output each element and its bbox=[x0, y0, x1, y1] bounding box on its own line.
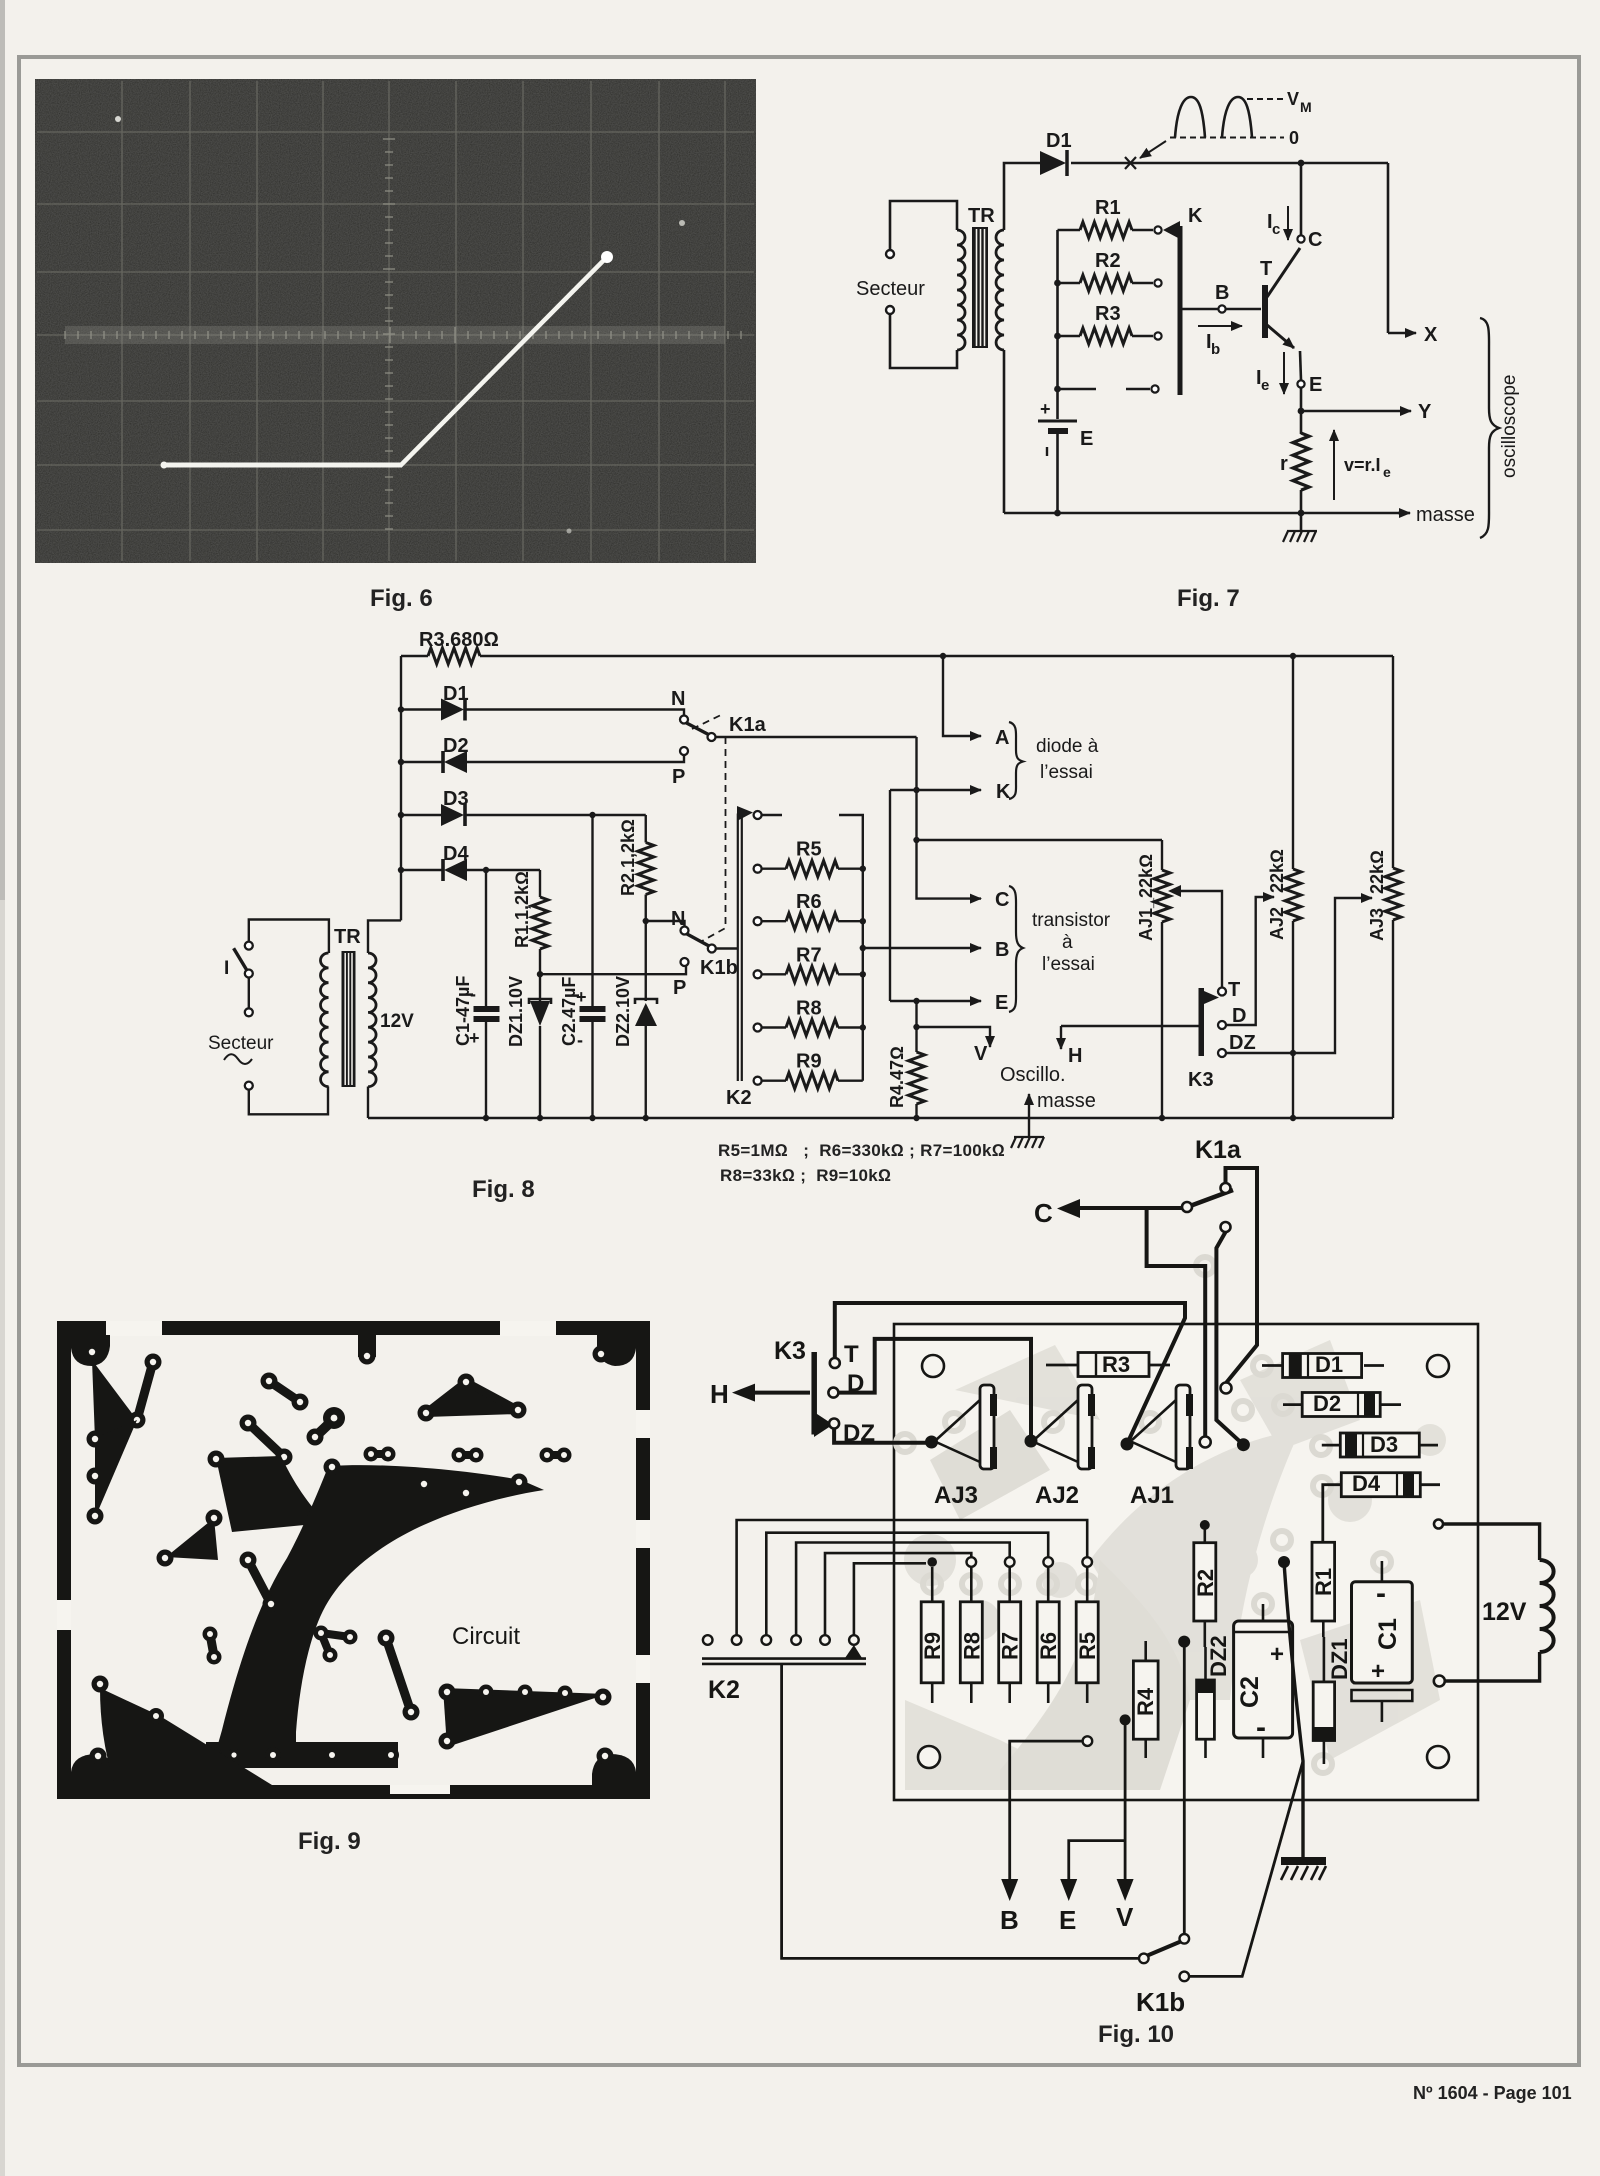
twin pads row bbox=[371, 1450, 388, 1458]
svg-text:R1: R1 bbox=[1095, 197, 1121, 219]
arrow B bbox=[1083, 1736, 1093, 1746]
svg-text:N: N bbox=[671, 688, 685, 710]
ground symbol bbox=[1281, 1857, 1326, 1865]
wire emitter to E bbox=[1300, 351, 1301, 380]
svg-text:AJ1_22kΩ: AJ1_22kΩ bbox=[1136, 854, 1156, 941]
wire D to AJ2 wiper bbox=[1226, 897, 1274, 1025]
arrow V bbox=[1124, 1720, 1127, 1884]
svg-text:R8: R8 bbox=[796, 998, 822, 1020]
trimmer AJ1 22k bbox=[1161, 840, 1163, 870]
wire battery to rail bbox=[1056, 433, 1059, 513]
svg-text:Circuit: Circuit bbox=[452, 1623, 520, 1650]
svg-text:D3: D3 bbox=[1370, 1432, 1398, 1457]
arrow C bbox=[1078, 1206, 1183, 1210]
node B wire bbox=[1180, 308, 1261, 311]
svg-text:K1b: K1b bbox=[700, 957, 738, 979]
arrow X bbox=[1388, 332, 1416, 335]
small triangle left bbox=[166, 1518, 218, 1560]
svg-text:N: N bbox=[671, 908, 685, 930]
diode D2 row bbox=[398, 759, 404, 765]
wire K to E vertical bbox=[889, 790, 891, 1001]
resistor R6 bbox=[1047, 1567, 1050, 1602]
switch K1a bbox=[680, 716, 688, 724]
svg-text:V: V bbox=[974, 1043, 988, 1065]
svg-text:+: + bbox=[1040, 399, 1051, 419]
resistor R3 bbox=[1054, 333, 1061, 340]
trace top-left diagonal bbox=[137, 1362, 153, 1420]
bottom-left fan bbox=[100, 1688, 272, 1785]
resistor R5 bbox=[762, 868, 786, 870]
svg-text:C: C bbox=[1034, 1198, 1053, 1228]
svg-text:E: E bbox=[1309, 374, 1322, 396]
board outline bbox=[894, 1324, 1478, 1800]
big swoosh bbox=[218, 1462, 544, 1744]
svg-text:C2: C2 bbox=[1236, 1676, 1264, 1708]
svg-text:E: E bbox=[995, 992, 1008, 1014]
svg-text:A: A bbox=[995, 727, 1009, 749]
selector K2 bbox=[737, 814, 739, 1082]
left rail bbox=[400, 656, 402, 920]
svg-text:-: - bbox=[1256, 1711, 1266, 1744]
svg-text:D1: D1 bbox=[1315, 1352, 1343, 1377]
svg-text:K2: K2 bbox=[708, 1676, 740, 1704]
svg-text:C1: C1 bbox=[1374, 1618, 1402, 1650]
wire AJ rail bbox=[917, 839, 1163, 841]
wire DZ to AJ3 wiper bbox=[1226, 898, 1372, 1053]
diode D4 row bbox=[398, 867, 404, 873]
svg-text:R3: R3 bbox=[1095, 303, 1121, 325]
center-left shark fin bbox=[216, 1456, 325, 1532]
svg-text:-: - bbox=[577, 1030, 583, 1050]
svg-text:R1: R1 bbox=[1311, 1568, 1336, 1596]
svg-text:DZ2: DZ2 bbox=[1206, 1635, 1231, 1677]
resistor R3.680 bbox=[428, 648, 480, 664]
svg-text:R7: R7 bbox=[796, 944, 822, 966]
oscilloscope brace bbox=[1480, 318, 1499, 538]
resistor R4.47 bbox=[915, 1001, 917, 1052]
transformer core bbox=[972, 227, 988, 348]
transformer secondary coil bbox=[996, 230, 1004, 350]
resistor R8 bbox=[970, 1567, 973, 1602]
wire D1 to top right bbox=[1071, 162, 1388, 165]
svg-text:l’essai: l’essai bbox=[1042, 954, 1095, 975]
node K row bbox=[890, 789, 981, 791]
svg-text:22kΩ: 22kΩ bbox=[1267, 849, 1287, 893]
svg-text:+: + bbox=[1371, 1658, 1385, 1685]
wire DZ to AJ3 wiper bbox=[834, 1429, 929, 1443]
svg-text:H: H bbox=[710, 1379, 729, 1409]
transformer TR primary bbox=[320, 953, 328, 1087]
svg-text:K3: K3 bbox=[1188, 1069, 1214, 1091]
svg-text:DZ1: DZ1 bbox=[1327, 1638, 1352, 1680]
svg-text:R5: R5 bbox=[796, 839, 822, 861]
transformer secondary bbox=[368, 953, 376, 1087]
junction row R1 bottom to K1b P bbox=[540, 966, 686, 974]
svg-text:T: T bbox=[844, 1341, 859, 1368]
svg-text:B: B bbox=[1000, 1905, 1019, 1935]
corner pads bbox=[71, 1335, 110, 1366]
svg-text:v: v bbox=[1344, 455, 1354, 475]
capacitor C1 bbox=[1381, 1561, 1384, 1582]
wire secteur top bbox=[890, 201, 957, 250]
arrow V bbox=[917, 1027, 991, 1047]
wire K1a feed to C bbox=[917, 737, 982, 899]
svg-text:masse: masse bbox=[1037, 1090, 1096, 1112]
transistor T bbox=[1262, 285, 1268, 338]
resistor R1 1,2k bbox=[539, 870, 541, 897]
svg-text:Secteur: Secteur bbox=[856, 278, 925, 300]
svg-text:R3.680Ω: R3.680Ω bbox=[419, 629, 499, 651]
current Ib arrow bbox=[1198, 325, 1242, 327]
resistor R1 bbox=[1058, 229, 1081, 232]
spare switch position stub bbox=[1054, 386, 1061, 393]
wire X drop bbox=[1387, 163, 1390, 333]
wire C drop bbox=[1300, 163, 1303, 236]
scan left edge artifact bbox=[0, 0, 5, 900]
arrow Y bbox=[1298, 408, 1305, 415]
oscilloscope photo background bbox=[35, 79, 756, 563]
svg-text:R2: R2 bbox=[1095, 250, 1121, 272]
zener DZ2 bbox=[1204, 1647, 1207, 1680]
svg-text:D4: D4 bbox=[1352, 1471, 1381, 1496]
svg-text:K2: K2 bbox=[726, 1087, 752, 1109]
svg-text:P: P bbox=[673, 977, 686, 999]
svg-text:D: D bbox=[1232, 1005, 1246, 1027]
trimmer AJ2 bbox=[1034, 1400, 1078, 1440]
svg-text:C: C bbox=[995, 889, 1009, 911]
wire 12V link bbox=[1434, 1520, 1443, 1529]
svg-text:AJ3: AJ3 bbox=[934, 1482, 978, 1509]
svg-text:l’essai: l’essai bbox=[1040, 762, 1093, 783]
waveform annotation bbox=[1140, 97, 1284, 158]
terminal secteur B bbox=[886, 306, 894, 314]
arrow H bbox=[752, 1391, 810, 1395]
svg-text:à: à bbox=[1062, 932, 1073, 953]
resistor r bbox=[1293, 433, 1309, 490]
svg-text:AJ2: AJ2 bbox=[1035, 1482, 1079, 1509]
svg-text:V: V bbox=[1116, 1902, 1134, 1932]
harness K2 to resistor pads bbox=[737, 1520, 1088, 1636]
svg-text:R6: R6 bbox=[1036, 1632, 1061, 1660]
svg-text:R2: R2 bbox=[1193, 1569, 1218, 1597]
svg-text:B: B bbox=[995, 939, 1009, 961]
svg-text:Y: Y bbox=[1418, 401, 1432, 423]
svg-text:masse: masse bbox=[1416, 504, 1475, 526]
trimmer AJ2 22k bbox=[1290, 653, 1296, 659]
node E bbox=[1297, 380, 1304, 387]
svg-text:Secteur: Secteur bbox=[208, 1033, 274, 1054]
svg-text:R4: R4 bbox=[1133, 1687, 1158, 1716]
svg-text:22kΩ: 22kΩ bbox=[1367, 850, 1387, 894]
resistor R9 bbox=[931, 1567, 934, 1602]
wire secondary bottom down bbox=[1003, 350, 1006, 513]
svg-text:-: - bbox=[470, 984, 476, 1004]
svg-text:+: + bbox=[469, 1028, 480, 1048]
Fig.8 schematic bbox=[210, 620, 1510, 1212]
diode D1 bbox=[1262, 1364, 1282, 1367]
zener DZ1 bbox=[529, 999, 551, 1004]
switch K bar bbox=[1178, 226, 1183, 395]
resistor R2 bbox=[1054, 280, 1061, 287]
transformer primary coil bbox=[957, 230, 965, 350]
svg-text:D3: D3 bbox=[443, 788, 469, 810]
svg-text:transistor: transistor bbox=[1032, 910, 1111, 931]
Fig.10 component layout bbox=[700, 1140, 1580, 2060]
diagonal bar bottom bbox=[386, 1638, 411, 1712]
bottom-right triangle bbox=[443, 1688, 607, 1747]
zener DZ1 bbox=[1323, 1637, 1326, 1682]
svg-text:DZ: DZ bbox=[1229, 1032, 1256, 1054]
wire r to rail bbox=[1300, 490, 1303, 531]
resistor R5 bbox=[1086, 1567, 1089, 1602]
transformer core bbox=[342, 951, 356, 1087]
svg-text:D4: D4 bbox=[443, 843, 469, 865]
wire bottom rail bbox=[1004, 512, 1404, 515]
svg-text:E: E bbox=[1059, 1905, 1076, 1935]
terminal secteur A bbox=[886, 250, 894, 258]
frame notches bbox=[106, 1321, 162, 1336]
node E row bbox=[890, 1000, 981, 1002]
svg-text:T: T bbox=[1228, 979, 1240, 1001]
zener DZ2 bbox=[635, 999, 657, 1004]
resistor R9 bbox=[762, 1079, 786, 1081]
svg-text:TR: TR bbox=[334, 926, 361, 948]
svg-text:r: r bbox=[1280, 453, 1288, 475]
svg-text:e: e bbox=[1383, 464, 1391, 480]
top-right triangle bbox=[426, 1381, 519, 1413]
arrow E bbox=[1069, 1841, 1125, 1884]
big pad with stub bbox=[315, 1419, 334, 1437]
top tab with pad bbox=[358, 1335, 376, 1357]
svg-text:B: B bbox=[1215, 282, 1229, 304]
svg-text:oscilloscope: oscilloscope bbox=[1499, 375, 1520, 479]
capacitor C2 bbox=[1262, 1604, 1265, 1621]
wire second throw to AJ1 side pad bbox=[1216, 1232, 1243, 1445]
svg-text:D1: D1 bbox=[443, 683, 469, 705]
wire secteur bottom bbox=[890, 314, 957, 368]
svg-text:X: X bbox=[1424, 324, 1438, 346]
diode curve trace bbox=[164, 259, 605, 466]
resistor R2 bbox=[1200, 1520, 1210, 1530]
svg-text:E: E bbox=[1080, 428, 1093, 450]
svg-text:V: V bbox=[1287, 89, 1299, 109]
wire D to AJ2 wiper bbox=[838, 1339, 1031, 1438]
svg-text:diode à: diode à bbox=[1036, 736, 1099, 757]
resistor R4 bbox=[1144, 1641, 1147, 1661]
switch K1b bbox=[646, 921, 685, 927]
svg-text:D2: D2 bbox=[443, 735, 469, 757]
svg-text:R1.1,2kΩ: R1.1,2kΩ bbox=[512, 871, 532, 948]
svg-text:H: H bbox=[1068, 1045, 1082, 1067]
switch K3 bbox=[1199, 988, 1205, 1056]
capacitor C2 bbox=[591, 815, 593, 1006]
svg-text:K: K bbox=[1188, 205, 1203, 227]
svg-text:T: T bbox=[1260, 258, 1272, 280]
resistor R7 bbox=[1008, 1567, 1011, 1602]
svg-text:D1: D1 bbox=[1046, 130, 1072, 152]
svg-text:P: P bbox=[672, 766, 685, 788]
svg-text:c: c bbox=[1272, 221, 1280, 238]
ground net wire bbox=[1278, 1556, 1290, 1568]
wire secondary top to D1 bbox=[1004, 163, 1040, 230]
3-pad cluster bbox=[321, 1633, 350, 1637]
capacitor C1 bbox=[485, 870, 487, 1006]
diode D1 row bbox=[398, 706, 404, 712]
brace diode a l'essai bbox=[1009, 722, 1023, 799]
svg-text:b: b bbox=[1211, 341, 1220, 358]
masse arrow and ground bbox=[1028, 1094, 1030, 1118]
trimmer AJ3 bbox=[936, 1400, 980, 1440]
resistor R6 bbox=[762, 920, 786, 922]
bottom rail bbox=[368, 1117, 1393, 1119]
trimmer AJ1 bbox=[1132, 1400, 1176, 1440]
svg-text:C: C bbox=[1308, 229, 1322, 251]
diode D1 bbox=[1040, 151, 1066, 175]
svg-text:K1a: K1a bbox=[1195, 1136, 1242, 1164]
svg-text:+: + bbox=[576, 987, 587, 1007]
top rail with R3 bbox=[401, 655, 1393, 657]
svg-text:12V: 12V bbox=[380, 1011, 414, 1032]
svg-text:R9: R9 bbox=[920, 1632, 945, 1660]
svg-text:TR: TR bbox=[968, 205, 995, 227]
svg-text:R9: R9 bbox=[796, 1051, 822, 1073]
svg-text:0: 0 bbox=[1289, 128, 1299, 148]
Fig.9 printed circuit bbox=[55, 1318, 652, 1802]
svg-text:M: M bbox=[1300, 99, 1312, 115]
svg-text:12V: 12V bbox=[1482, 1598, 1527, 1626]
node cross mark bbox=[1125, 157, 1136, 169]
resistor R3 bbox=[1046, 1364, 1078, 1367]
svg-text:-: - bbox=[1376, 1577, 1386, 1610]
trace pair mid bbox=[248, 1560, 271, 1604]
svg-text:e: e bbox=[1261, 377, 1269, 394]
svg-text:I: I bbox=[224, 958, 229, 979]
svg-text:+: + bbox=[1270, 1641, 1284, 1668]
wire R bank left vertical bbox=[1056, 230, 1059, 419]
svg-text:=r.I: =r.I bbox=[1354, 455, 1381, 475]
Fig.7 schematic bbox=[840, 85, 1530, 615]
svg-text:R8: R8 bbox=[959, 1632, 984, 1660]
vertical bar mid-left bbox=[210, 1634, 214, 1656]
diode D3 row bbox=[398, 812, 404, 818]
left pad column triangle bbox=[95, 1420, 137, 1518]
svg-text:R5: R5 bbox=[1075, 1632, 1100, 1660]
Fig.6 oscilloscope photo bbox=[35, 79, 756, 563]
resistor R1 bbox=[1312, 1542, 1335, 1621]
connector K2 bbox=[702, 1657, 866, 1660]
PCB copper frame bbox=[57, 1321, 650, 1799]
svg-text:DZ1.10V: DZ1.10V bbox=[506, 976, 526, 1047]
resistor R2 1,2k bbox=[645, 815, 647, 843]
svg-text:AJ2: AJ2 bbox=[1267, 907, 1287, 940]
node A feed bbox=[940, 653, 946, 659]
switch K1b bbox=[782, 1664, 1139, 1959]
svg-text:R6: R6 bbox=[796, 891, 822, 913]
diode D3 bbox=[1322, 1444, 1340, 1447]
trimmer AJ3 22k bbox=[1392, 656, 1394, 868]
svg-text:Oscillo.: Oscillo. bbox=[1000, 1064, 1066, 1086]
svg-text:K1a: K1a bbox=[729, 714, 767, 736]
svg-text:R2.1,2kΩ: R2.1,2kΩ bbox=[618, 819, 638, 896]
mounting holes bbox=[922, 1355, 944, 1377]
svg-text:AJ3: AJ3 bbox=[1367, 908, 1387, 941]
wire C-line drop to pad bbox=[1147, 1209, 1206, 1437]
ground bbox=[1283, 531, 1317, 542]
arrow H bbox=[1061, 1025, 1201, 1027]
svg-text:R3: R3 bbox=[1102, 1352, 1130, 1377]
node C bbox=[1297, 235, 1304, 242]
switch I and mains terminals bbox=[249, 920, 329, 1115]
svg-text:DZ2.10V: DZ2.10V bbox=[613, 976, 633, 1047]
svg-text:R4.47Ω: R4.47Ω bbox=[887, 1046, 907, 1108]
diode D2 bbox=[1283, 1403, 1302, 1406]
bottom bus bar bbox=[206, 1742, 398, 1768]
svg-text:K1b: K1b bbox=[1136, 1987, 1185, 2017]
svg-text:AJ1: AJ1 bbox=[1130, 1482, 1174, 1509]
diode D4 bbox=[1323, 1485, 1341, 1542]
masse arrow bbox=[1398, 512, 1410, 515]
coil 12V bbox=[1540, 1560, 1554, 1652]
svg-text:R7: R7 bbox=[998, 1632, 1023, 1660]
wire T to AJ1 wiper bbox=[835, 1303, 1185, 1444]
v=r.Ie annotation bbox=[1333, 430, 1335, 500]
brace transistor a l'essai bbox=[1009, 886, 1023, 1012]
ghost copper pattern bbox=[904, 1340, 1446, 1790]
svg-text:K: K bbox=[996, 781, 1011, 803]
trace short bar b bbox=[248, 1423, 284, 1457]
node B row bbox=[860, 945, 866, 951]
svg-text:K3: K3 bbox=[774, 1337, 806, 1365]
resistor R7 bbox=[762, 973, 786, 975]
wire E to Y junction to r bbox=[1300, 388, 1303, 435]
trace short bar a bbox=[269, 1381, 300, 1402]
resistor R8 bbox=[762, 1026, 786, 1028]
svg-text:D2: D2 bbox=[1313, 1391, 1341, 1416]
